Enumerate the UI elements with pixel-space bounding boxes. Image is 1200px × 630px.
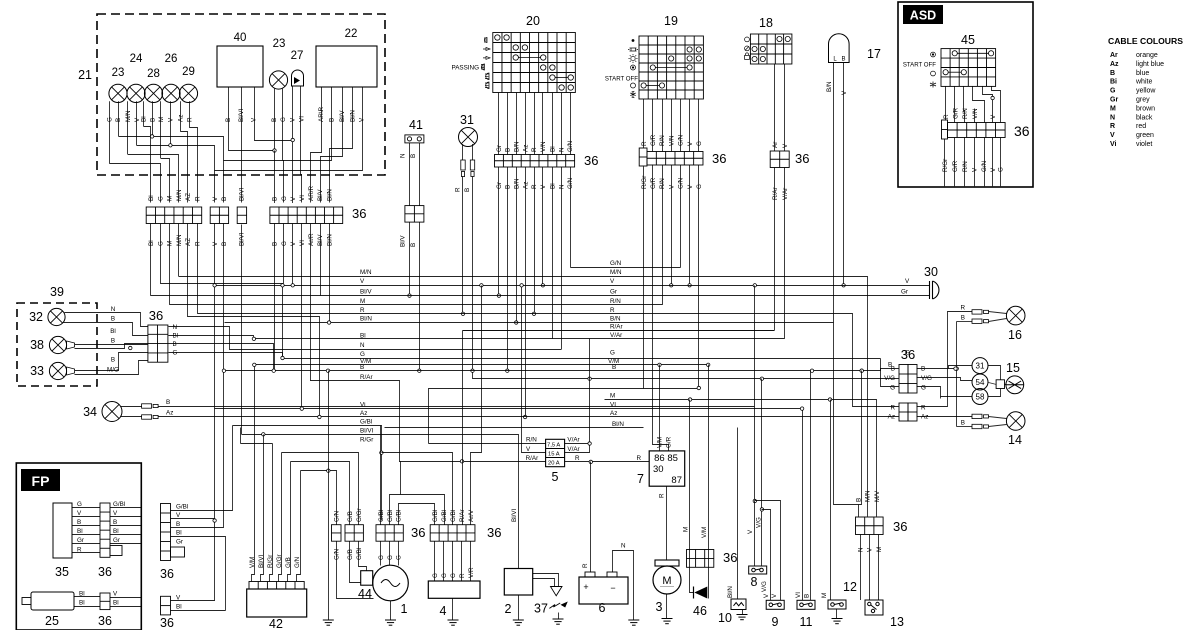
wires item 41 [409, 143, 411, 206]
svg-text:Ar: Ar [772, 142, 779, 148]
svg-text:black: black [1136, 114, 1153, 121]
wires below gen connector [337, 542, 374, 599]
svg-text:AZ: AZ [185, 193, 192, 201]
svg-text:V/N: V/N [972, 108, 979, 119]
svg-text:START OFF: START OFF [903, 62, 936, 69]
wires lamp 34 [121, 406, 142, 408]
svg-text:V/Ar: V/Ar [567, 437, 579, 444]
svg-text:M: M [683, 527, 690, 532]
svg-text:34: 34 [83, 405, 97, 419]
svg-text:38: 38 [30, 338, 44, 352]
svg-text:V/M: V/M [249, 557, 256, 568]
wire B link 16-14 [956, 322, 958, 427]
svg-text:29: 29 [182, 66, 195, 78]
grid 45 contacts [943, 51, 994, 75]
svg-text:B: B [505, 148, 512, 152]
svg-text:M/N: M/N [865, 490, 872, 502]
bus M right [605, 400, 877, 517]
svg-text:M: M [821, 593, 828, 598]
connector 36 (39) [148, 325, 168, 362]
lamp 33 [49, 362, 66, 379]
svg-text:G/R: G/R [650, 177, 657, 189]
svg-text:V/Ar: V/Ar [782, 188, 789, 200]
fuel pump unit 35 [53, 503, 72, 558]
svg-text:G: G [387, 555, 394, 560]
wires grid 20 to connector [498, 93, 500, 155]
lamp sockets [67, 341, 75, 375]
svg-text:Gr: Gr [901, 289, 908, 296]
wire VI [802, 409, 804, 601]
control unit 22 [316, 46, 377, 87]
svg-text:B: B [1110, 70, 1115, 77]
svg-text:G: G [107, 117, 114, 122]
junction [688, 284, 691, 287]
connector single cell (gen) [332, 525, 342, 542]
wire N to ground [613, 551, 634, 620]
bus R/Ar left [311, 381, 546, 462]
svg-text:36: 36 [1014, 123, 1030, 139]
svg-text:Bl/N: Bl/N [727, 586, 734, 598]
svg-text:G: G [696, 184, 703, 189]
svg-text:Bl/VI: Bl/VI [511, 508, 518, 522]
svg-text:N: N [360, 342, 365, 349]
svg-text:G/Bl: G/Bl [387, 510, 394, 522]
svg-text:R/N: R/N [610, 298, 621, 305]
svg-text:V/G: V/G [884, 375, 895, 382]
svg-text:N: N [558, 147, 565, 152]
svg-text:25: 25 [45, 614, 59, 628]
connector 36 (18) [770, 151, 789, 168]
svg-text:B: B [891, 366, 895, 373]
svg-text:3: 3 [656, 600, 663, 614]
svg-text:40: 40 [234, 32, 247, 44]
svg-text:20 A: 20 A [548, 461, 560, 467]
svg-text:Ar/V: Ar/V [468, 509, 475, 522]
bus Vi [215, 408, 803, 410]
svg-text:Bl/V: Bl/V [400, 235, 407, 247]
junction [129, 346, 132, 349]
connector 36 single cell (19) [639, 148, 647, 166]
svg-text:V: V [1110, 132, 1115, 139]
svg-text:G/N: G/N [678, 177, 685, 189]
wire 58 to socket [989, 389, 1001, 397]
wires grid 45 to connector [945, 87, 947, 121]
svg-text:B: B [505, 185, 512, 189]
svg-text:M: M [167, 241, 174, 246]
svg-text:9: 9 [772, 615, 779, 629]
junction [520, 284, 523, 287]
connector 36 (starter circuit) [687, 550, 714, 568]
svg-text:B: B [111, 316, 115, 323]
connector 36 block A [146, 207, 202, 224]
svg-text:R/Gr: R/Gr [641, 176, 648, 189]
bus Bl/N right [385, 427, 644, 429]
svg-text:12: 12 [843, 580, 857, 594]
svg-text:CABLE COLOURS: CABLE COLOURS [1108, 36, 1183, 46]
svg-text:R/Ar: R/Ar [772, 187, 779, 200]
grid 18 contact circles [752, 36, 790, 61]
wire V/Ar out [565, 443, 590, 445]
svg-text:G: G [450, 573, 457, 578]
LED indicator 27 [292, 70, 304, 86]
svg-text:36: 36 [160, 616, 174, 630]
svg-text:36: 36 [160, 567, 174, 581]
svg-text:G/N: G/N [610, 260, 622, 267]
wires into CDI 42 [252, 365, 255, 582]
svg-text:11: 11 [800, 615, 813, 629]
svg-text:M: M [360, 298, 365, 305]
svg-text:R: R [890, 405, 895, 412]
wire to ground [518, 595, 520, 620]
svg-text:B: B [221, 197, 228, 201]
junction [760, 508, 763, 511]
svg-text:39: 39 [50, 285, 64, 299]
warning lamp 23 [109, 84, 127, 102]
wire V/Ar [784, 168, 786, 339]
bus B [224, 369, 899, 371]
wire R to starter motor [666, 487, 668, 561]
bus R/Gr [241, 443, 273, 445]
wire V [671, 165, 673, 285]
svg-text:15 A: 15 A [548, 452, 560, 458]
wires from unit 40 [229, 87, 275, 151]
svg-text:G/N: G/N [294, 556, 301, 568]
svg-text:R/N: R/N [962, 161, 969, 172]
svg-text:B: B [360, 364, 364, 371]
ground [513, 620, 524, 625]
wires from LED 27 [292, 86, 294, 140]
svg-text:G/Bl: G/Bl [378, 510, 385, 522]
wire Az to lamp 14 [917, 416, 973, 418]
bullet connector [142, 404, 159, 408]
svg-text:N: N [621, 543, 626, 550]
ignition coil 2 [504, 569, 532, 596]
svg-text:Bl/VI: Bl/VI [360, 428, 374, 435]
connector 36 (FP external) [161, 504, 171, 561]
svg-text:28: 28 [147, 68, 160, 80]
bus V/Ar [590, 338, 785, 340]
svg-text:31: 31 [460, 113, 474, 127]
svg-text:G/Gr: G/Gr [276, 554, 283, 568]
connector 36 (gen 2x) [345, 525, 363, 542]
svg-text:Bl: Bl [79, 591, 85, 598]
wire M [830, 400, 832, 601]
Pi-bend wires to generator connectors [282, 453, 359, 525]
svg-text:23: 23 [112, 67, 125, 79]
wire V to fuse [522, 286, 546, 453]
wire R to relay [565, 461, 650, 463]
wire R to battery [590, 462, 592, 573]
battery 6 [579, 577, 628, 604]
wire to 58 [941, 396, 973, 398]
wires grid 19 to connector [643, 99, 645, 148]
svg-text:brown: brown [1136, 105, 1155, 112]
svg-text:R: R [1110, 123, 1115, 130]
svg-text:Bl/N: Bl/N [612, 421, 624, 428]
svg-text:grey: grey [1136, 97, 1150, 104]
junction [955, 367, 958, 370]
wire link to G [644, 388, 699, 390]
bullet connector [972, 414, 989, 418]
svg-text:M: M [876, 547, 883, 552]
svg-text:26: 26 [165, 53, 178, 65]
svg-text:Az: Az [360, 410, 367, 417]
spark plug cable to 37 (hollow arrow) [533, 574, 559, 587]
wire V/G to 9 left [762, 510, 771, 601]
svg-text:R/Gr: R/Gr [267, 555, 274, 568]
brake switch 8 [749, 566, 767, 574]
svg-text:19: 19 [664, 14, 678, 28]
svg-text:R: R [531, 184, 538, 189]
svg-text:R/N: R/N [962, 108, 969, 119]
diode 46 [694, 587, 707, 599]
svg-text:G/Gr: G/Gr [356, 508, 363, 522]
svg-text:B/N: B/N [610, 316, 621, 323]
svg-text:G/R: G/R [953, 107, 960, 119]
svg-text:36: 36 [411, 525, 425, 540]
svg-text:21: 21 [78, 68, 92, 82]
svg-text:G: G [1110, 88, 1116, 95]
svg-text:M: M [1110, 105, 1116, 112]
bus N [169, 327, 562, 350]
svg-text:31: 31 [976, 362, 985, 371]
svg-text:V/G: V/G [921, 375, 932, 382]
svg-text:B: B [961, 420, 965, 427]
svg-text:Ar: Ar [1110, 52, 1118, 59]
svg-text:blue: blue [1136, 70, 1149, 77]
wire B to ground [328, 371, 330, 620]
svg-text:36: 36 [712, 151, 726, 166]
svg-text:G: G [610, 350, 615, 357]
bullet connector [972, 424, 989, 428]
bullet connector [142, 415, 159, 419]
svg-text:33: 33 [30, 364, 44, 378]
warning lamp 29 [179, 84, 197, 102]
FP label [21, 469, 60, 491]
svg-text:Bl: Bl [176, 604, 182, 611]
connector 36 (tail) [899, 365, 908, 394]
svg-text:Az: Az [1110, 61, 1119, 68]
connector 36 (25) [100, 593, 110, 610]
grid 45 icons [930, 52, 936, 87]
svg-text:N: N [558, 184, 565, 189]
svg-text:R: R [186, 117, 193, 122]
wire V/M [708, 365, 710, 599]
svg-text:N: N [858, 547, 865, 552]
svg-text:G/Bl: G/Bl [360, 419, 372, 426]
junction [273, 149, 276, 152]
svg-text:N: N [111, 306, 116, 313]
svg-text:16: 16 [1008, 328, 1022, 342]
svg-text:START OFF: START OFF [605, 76, 638, 83]
ASD label [903, 5, 943, 24]
wire R/Ar [774, 168, 776, 331]
svg-text:M: M [662, 575, 671, 587]
svg-text:Bl: Bl [77, 528, 83, 535]
svg-text:B: B [921, 366, 925, 373]
svg-text:36: 36 [584, 153, 598, 168]
svg-text:30: 30 [924, 265, 938, 279]
svg-text:B: B [149, 118, 156, 122]
svg-text:B: B [855, 498, 862, 502]
svg-text:Bl: Bl [176, 530, 182, 537]
svg-text:Bl/VI: Bl/VI [239, 232, 246, 246]
svg-text:green: green [1136, 132, 1154, 139]
svg-text:10: 10 [718, 611, 732, 625]
lamp 34 [102, 402, 122, 422]
svg-text:1: 1 [401, 602, 408, 616]
svg-text:V/G: V/G [756, 517, 763, 528]
connector 36 (R/Az) [899, 403, 908, 421]
svg-text:86 85: 86 85 [654, 453, 678, 464]
wires lamp 31 [462, 144, 464, 160]
svg-text:Bl/V: Bl/V [360, 289, 372, 296]
connector 36 single cell (ASD) [942, 120, 948, 139]
svg-text:G/R: G/R [650, 134, 657, 146]
svg-text:R: R [610, 307, 615, 314]
svg-text:32: 32 [29, 310, 43, 324]
svg-text:B: B [271, 118, 278, 122]
svg-text:R: R [575, 455, 580, 462]
wires grid 18 [774, 64, 776, 151]
svg-text:Gr: Gr [176, 539, 183, 546]
svg-text:R: R [659, 493, 666, 498]
junction [588, 442, 591, 445]
svg-text:Bl: Bl [79, 600, 85, 607]
svg-text:G: G [441, 573, 448, 578]
svg-text:R: R [960, 305, 965, 312]
svg-text:Az: Az [921, 414, 928, 421]
bus Bl/N - B/N [225, 322, 834, 324]
wires below ASD connector [944, 139, 946, 186]
junction [252, 337, 255, 340]
grid 20 row icons [481, 38, 490, 89]
svg-text:B/N: B/N [513, 178, 520, 189]
svg-text:36: 36 [487, 525, 501, 540]
svg-text:white: white [1135, 79, 1152, 86]
wire bundle from connector A/B/C/D to bus lines [150, 224, 152, 296]
svg-text:B: B [410, 243, 417, 247]
svg-text:light blue: light blue [1136, 61, 1164, 68]
junction [589, 460, 592, 463]
svg-text:18: 18 [759, 16, 773, 30]
junction [760, 377, 763, 380]
svg-text:M: M [167, 196, 174, 201]
svg-text:R/N: R/N [659, 135, 666, 146]
svg-text:B: B [804, 594, 811, 598]
bus G/Bl [233, 426, 382, 521]
svg-text:42: 42 [269, 617, 283, 630]
svg-text:G: G [157, 196, 164, 201]
wire V/G to 54 [917, 378, 973, 381]
svg-text:Bl/VI: Bl/VI [238, 108, 245, 122]
svg-text:M/N: M/N [125, 110, 132, 122]
svg-text:M/V: M/V [874, 490, 881, 502]
svg-text:B: B [166, 399, 170, 406]
svg-text:Bl: Bl [113, 528, 119, 535]
svg-text:orange: orange [1136, 52, 1158, 59]
connector 36 (fan switch) [856, 517, 884, 535]
svg-text:Az: Az [888, 414, 895, 421]
wire V [689, 165, 691, 285]
junction [588, 377, 591, 380]
wire 54 to socket [989, 383, 997, 385]
svg-text:B: B [272, 197, 279, 201]
svg-text:Ar/R: Ar/R [308, 233, 315, 246]
wire B join [859, 371, 862, 505]
wires from warning lamps [109, 101, 111, 163]
turn indicator box 39 [17, 303, 97, 386]
svg-text:VI: VI [795, 592, 802, 598]
wire G/N [680, 165, 682, 268]
svg-text:R/N: R/N [526, 437, 537, 444]
wire V/M to relay [659, 365, 661, 451]
svg-text:23: 23 [273, 38, 286, 50]
svg-text:R: R [641, 141, 648, 146]
svg-text:Gr: Gr [610, 289, 617, 296]
wire R/N to fuse [429, 443, 546, 445]
wire B row [917, 368, 957, 370]
svg-text:45: 45 [961, 33, 975, 47]
wire V/Ar out 2 [565, 339, 590, 453]
svg-text:B: B [272, 242, 279, 246]
svg-text:14: 14 [1008, 433, 1022, 447]
svg-text:V/Ar: V/Ar [610, 332, 622, 339]
svg-text:Az: Az [166, 410, 173, 417]
svg-text:M/N: M/N [176, 189, 183, 201]
svg-text:VI: VI [610, 402, 616, 409]
svg-text:Bl/N: Bl/N [349, 110, 356, 122]
lamp 14 [1006, 412, 1025, 431]
svg-text:B/N: B/N [513, 141, 520, 152]
svg-text:Az: Az [522, 145, 529, 152]
svg-text:G: G [173, 350, 178, 357]
svg-text:Vi: Vi [1110, 141, 1117, 148]
svg-text:AR\R: AR\R [318, 107, 325, 122]
svg-text:Bl/VI: Bl/VI [258, 554, 265, 568]
connector 36 block B [210, 207, 228, 224]
svg-text:44: 44 [358, 587, 372, 601]
wires lamps 32/38/33 to connector [65, 313, 148, 327]
svg-text:87: 87 [671, 475, 682, 486]
svg-text:M/N: M/N [360, 269, 372, 276]
svg-text:Az: Az [522, 182, 529, 189]
starter relay 7 [649, 451, 685, 486]
connector teeth 42 [249, 582, 304, 590]
bus V to horn [215, 285, 930, 287]
lamp 15 [1006, 376, 1024, 394]
svg-text:G/Bl: G/Bl [432, 510, 439, 522]
junction [150, 135, 153, 138]
svg-text:M/G: M/G [107, 367, 119, 374]
connector 36 (gen G wires) [376, 525, 403, 542]
svg-text:N: N [173, 324, 178, 331]
bus R [198, 314, 899, 407]
svg-text:Bl: Bl [148, 240, 155, 246]
svg-text:7,5 A: 7,5 A [547, 443, 560, 449]
svg-text:Bl: Bl [549, 146, 556, 152]
bus M - R/N [170, 304, 663, 306]
svg-text:G/N: G/N [334, 548, 341, 560]
svg-text:Bl/N: Bl/N [360, 316, 372, 323]
svg-text:AZ: AZ [185, 238, 192, 246]
bullet connector [470, 160, 474, 177]
wire B/N [833, 63, 835, 323]
svg-text:R/Ar: R/Ar [610, 323, 623, 330]
svg-text:G/Bl: G/Bl [356, 548, 363, 560]
item 25 fuel sensor [31, 592, 74, 610]
fuse block 5 [546, 439, 565, 466]
